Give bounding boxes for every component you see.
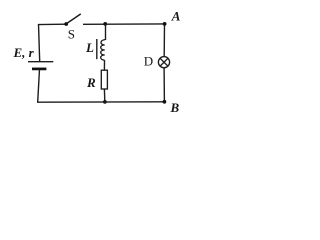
svg-text:S: S xyxy=(68,27,75,42)
svg-text:R: R xyxy=(86,75,96,90)
node B dot xyxy=(163,100,167,104)
node A dot xyxy=(163,22,167,26)
wire: top-left horizontal segment (battery top corner to switch pivot) xyxy=(38,23,66,25)
svg-text:A: A xyxy=(171,8,181,23)
junction dot (top of middle branch) xyxy=(103,22,107,26)
wire: between inductor and resistor xyxy=(103,60,105,70)
svg-text:D: D xyxy=(144,54,153,69)
svg-text:L: L xyxy=(85,40,94,55)
wire: right vertical lower (lamp to corner B) xyxy=(163,68,165,102)
battery short plate (negative, thick) xyxy=(32,68,46,71)
switch S blade (open, angled up-right) xyxy=(67,14,81,24)
resistor R box xyxy=(101,70,107,89)
wire: left vertical upper (corner to battery) xyxy=(39,24,40,62)
wire: middle branch top (junction down to inductor) xyxy=(105,24,107,40)
lamp D cross stroke 1 xyxy=(160,58,168,66)
wire: bottom horizontal xyxy=(37,101,165,103)
switch S pivot junction xyxy=(64,22,68,26)
svg-text:B: B xyxy=(170,100,180,115)
wire: right vertical upper (corner A to lamp) xyxy=(163,24,165,57)
junction dot (bottom of middle branch) xyxy=(103,100,107,104)
inductor L coil (4 bumps bulging left) xyxy=(101,40,106,61)
wire: top horizontal segment (switch to node junction to corner A) xyxy=(83,23,165,25)
wire: left vertical lower (battery to bottom corner) xyxy=(38,69,40,102)
inductor core bar line xyxy=(96,39,98,59)
lamp D circle xyxy=(158,57,169,68)
svg-text:E, r: E, r xyxy=(13,45,35,60)
wire: middle branch bottom (resistor to bottom junction) xyxy=(103,89,105,102)
battery long plate (positive) xyxy=(28,61,53,63)
lamp D cross stroke 2 xyxy=(160,58,168,66)
